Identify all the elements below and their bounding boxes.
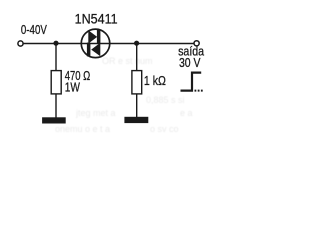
wire node B down to R2 [136,43,138,70]
resistor R1 470 ohm body [51,71,61,94]
wire through diode circle [82,43,109,45]
svg-text:1 kΩ: 1 kΩ [144,73,166,88]
diode D1 bottom element: triangle pointing left [91,43,100,56]
wire diode to output [109,43,194,45]
wire input to diode [23,43,81,45]
ground bar left [42,117,66,123]
wire R2 to ground [136,94,138,118]
diode D1 top cathode bar [97,30,101,44]
node B junction dot [134,41,139,46]
resistor R2 1k body [132,71,142,94]
svg-text:0-40V: 0-40V [21,22,47,37]
input terminal [18,41,23,46]
diode D1 bottom anode bar [87,43,91,57]
ground bar right [124,117,148,123]
diode D1 circle body [81,29,110,58]
svg-text:1W: 1W [65,80,81,95]
waveform dotted baseline [195,90,204,92]
svg-text:1N5411: 1N5411 [75,11,118,27]
output terminal [194,41,199,46]
output waveform step symbol [181,73,202,91]
diode D1 top element: triangle pointing right [88,30,97,43]
node A junction dot [53,41,58,46]
wire R1 to ground [55,94,57,118]
wire node A down to R1 [55,43,57,70]
svg-text:30 V: 30 V [179,55,201,70]
